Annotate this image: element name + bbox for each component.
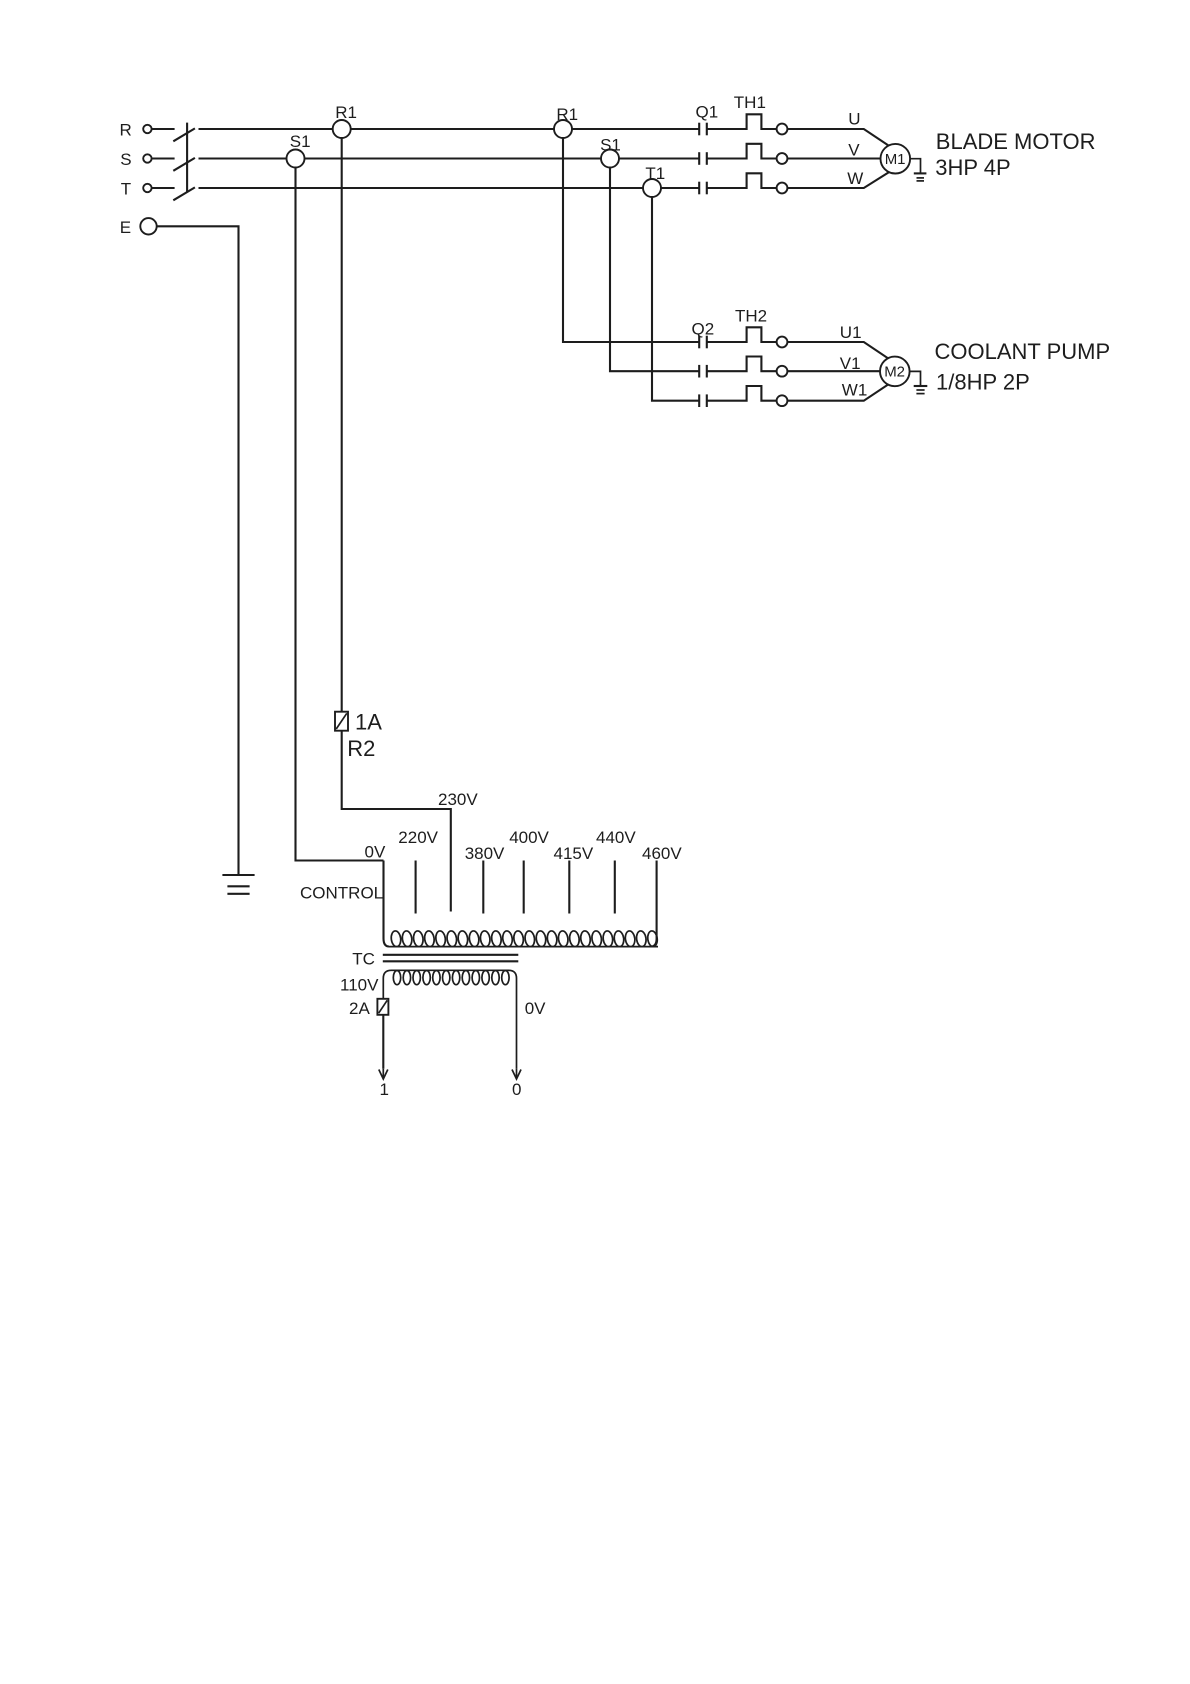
terminal T [121,179,175,198]
fuse R2 1A [335,709,382,761]
arrow output 0 [512,1069,521,1079]
svg-text:V1: V1 [840,354,861,373]
terminal S [120,150,174,169]
svg-text:U1: U1 [840,323,862,342]
svg-text:380V: 380V [465,844,505,863]
svg-text:TH1: TH1 [734,93,766,112]
tap 460V into winding end [642,844,682,947]
terminal E [120,218,157,237]
overload contact circle R row [777,124,788,135]
tap 380V [465,844,505,914]
fuse link R1 [333,103,357,138]
svg-text:Q2: Q2 [692,319,715,338]
wire drop R1 to U1 row [563,138,890,359]
overload contact circle S row [777,153,788,164]
wire fuse R2 to 230V tap [342,731,451,912]
tap 400V [509,828,549,913]
svg-text:230V: 230V [438,790,478,809]
svg-text:S: S [120,150,131,169]
contactor Q1 [696,103,719,195]
fuse link S1 second [600,135,621,167]
svg-text:E: E [120,218,131,237]
contactor Q2 [692,319,715,407]
svg-text:CONTROL: CONTROL [300,884,383,903]
svg-text:3HP 4P: 3HP 4P [935,155,1010,180]
ground at M2 [910,371,928,393]
svg-text:V: V [848,141,860,160]
svg-text:1A: 1A [355,709,382,734]
svg-text:400V: 400V [509,828,549,847]
svg-text:S1: S1 [290,132,311,151]
overload contact circle W1 row [777,395,788,406]
wire drop T1 to W1 row [652,197,890,401]
svg-text:M2: M2 [884,364,905,381]
overload contact circle U1 row [777,337,788,348]
fuse 2A [349,999,388,1018]
svg-text:1: 1 [380,1080,389,1099]
svg-text:Q1: Q1 [696,103,719,122]
wire drop S1 to V1 row [610,168,884,372]
svg-text:415V: 415V [554,844,594,863]
switch blade pole T [173,187,195,200]
ground at M1 [910,159,926,181]
svg-text:1/8HP 2P: 1/8HP 2P [936,369,1030,394]
switch blade pole S [173,158,195,171]
wire phase R with TH1 detour [199,114,891,146]
earth wire from E [157,226,239,875]
switch mechanical link [186,123,188,193]
svg-text:110V: 110V [340,976,379,995]
wire phase S with TH1 detour [199,144,885,159]
overload contact circle V1 row [777,366,788,377]
transformer core [383,955,519,962]
svg-text:TC: TC [352,949,375,968]
wire secondary 110V output [382,1015,384,1069]
fuse link S1 [287,132,311,168]
wire drop from R1 to fuse R2 [341,138,343,712]
fuse link T1 [643,164,665,197]
svg-text:R2: R2 [347,736,375,761]
svg-text:U: U [848,110,860,129]
transformer TC secondary winding [383,970,516,1068]
svg-text:2A: 2A [349,999,370,1018]
tap 440V [596,828,636,913]
svg-text:W1: W1 [842,381,868,400]
transformer TC primary winding [389,930,658,947]
overload contact circle T row [777,183,788,194]
svg-text:R: R [120,120,132,139]
motor M1 [881,144,911,174]
svg-text:R1: R1 [335,103,357,122]
svg-text:T: T [121,179,131,198]
svg-text:BLADE MOTOR: BLADE MOTOR [936,129,1096,154]
terminal R [120,120,175,139]
arrow output 1 [379,1069,388,1079]
wire phase T with TH1 detour [199,172,891,189]
svg-text:W: W [847,169,863,188]
fuse link R1 second [554,105,578,138]
wire drop from S1 to 0V tap [296,168,384,861]
svg-text:COOLANT PUMP: COOLANT PUMP [935,339,1111,364]
svg-text:460V: 460V [642,844,682,863]
svg-text:0V: 0V [525,999,546,1018]
ground (earth) symbol [222,875,254,894]
tap 415V [554,844,594,914]
switch blade pole R [173,128,195,141]
svg-text:TH2: TH2 [735,307,767,326]
svg-text:0V: 0V [365,843,386,862]
tap 220V [398,828,438,913]
svg-text:0: 0 [512,1080,521,1099]
svg-text:440V: 440V [596,828,636,847]
motor M2 [880,357,910,387]
svg-text:M1: M1 [885,151,906,168]
wire 0V tap into winding [384,861,390,947]
svg-text:220V: 220V [398,828,438,847]
